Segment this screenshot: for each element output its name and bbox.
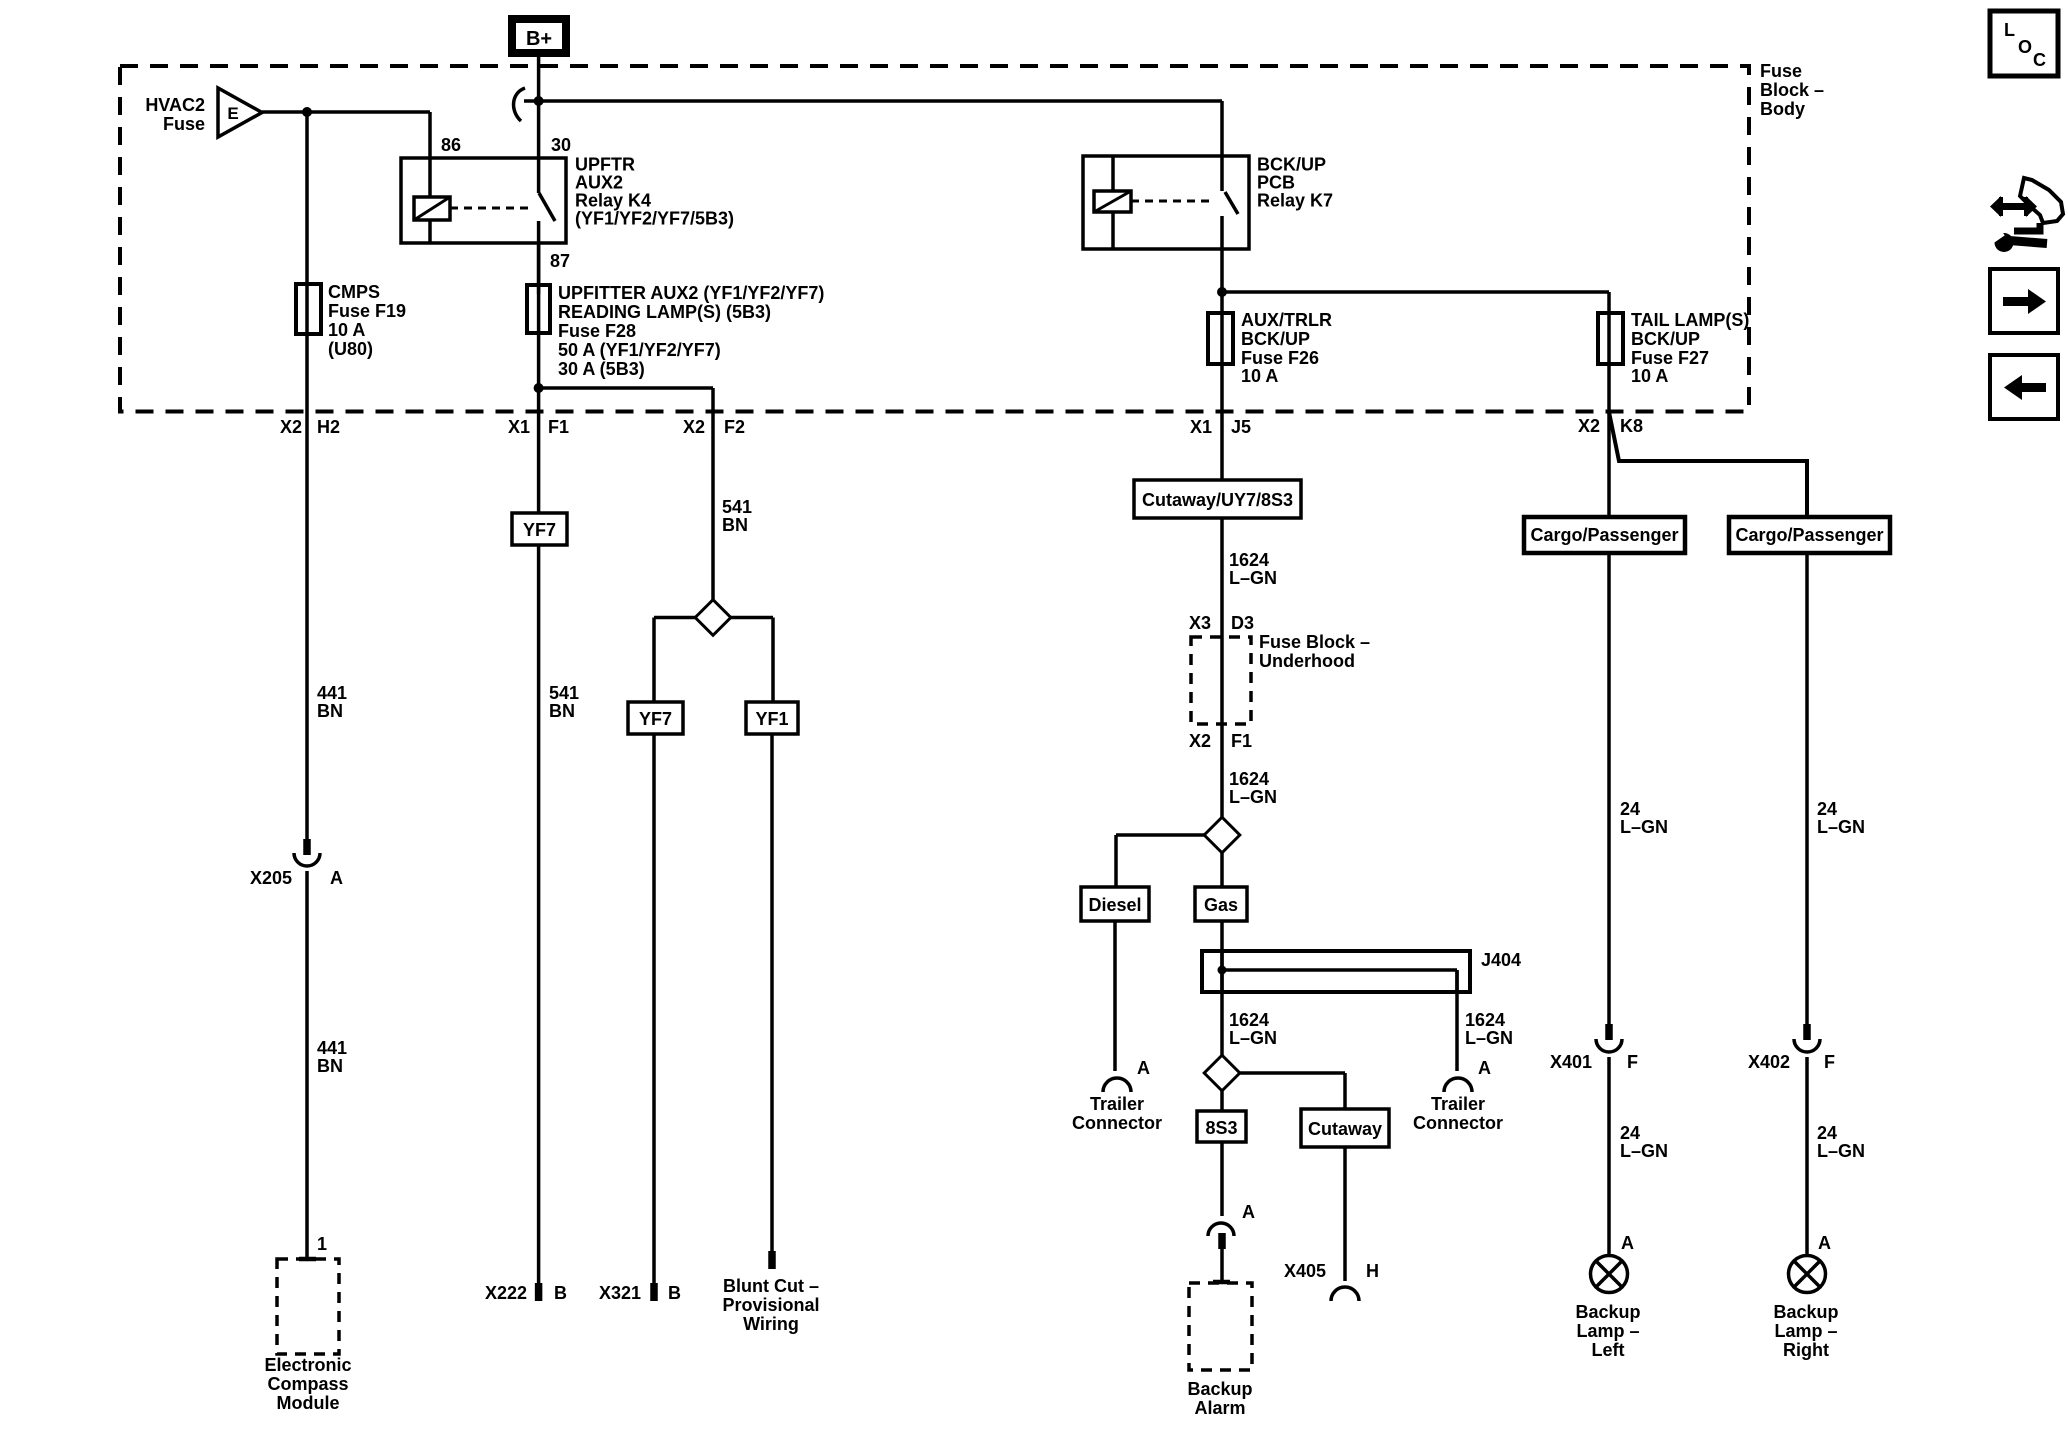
svg-text:Backup: Backup: [1773, 1302, 1838, 1322]
svg-text:L: L: [2004, 20, 2015, 40]
svg-text:AUX2: AUX2: [575, 173, 623, 193]
svg-text:READING LAMP(S) (5B3): READING LAMP(S) (5B3): [558, 302, 771, 322]
svg-text:Relay K7: Relay K7: [1257, 191, 1333, 211]
svg-text:Underhood: Underhood: [1259, 651, 1355, 671]
svg-text:CMPS: CMPS: [328, 282, 380, 302]
svg-text:D3: D3: [1231, 613, 1254, 633]
svg-text:A: A: [1621, 1233, 1634, 1253]
svg-text:X405: X405: [1284, 1261, 1326, 1281]
svg-text:BCK/UP: BCK/UP: [1241, 329, 1310, 349]
svg-text:O: O: [2018, 37, 2032, 57]
svg-text:Trailer: Trailer: [1431, 1094, 1485, 1114]
svg-text:L–GN: L–GN: [1229, 787, 1277, 807]
svg-text:1624: 1624: [1229, 550, 1269, 570]
svg-text:B: B: [668, 1283, 681, 1303]
svg-text:L–GN: L–GN: [1229, 568, 1277, 588]
svg-text:Backup: Backup: [1187, 1379, 1252, 1399]
svg-text:BN: BN: [722, 515, 748, 535]
svg-text:BCK/UP: BCK/UP: [1257, 155, 1326, 175]
svg-text:Compass: Compass: [267, 1374, 348, 1394]
svg-text:24: 24: [1620, 799, 1640, 819]
svg-text:AUX/TRLR: AUX/TRLR: [1241, 310, 1332, 330]
svg-text:X1: X1: [508, 417, 530, 437]
svg-text:YF7: YF7: [523, 520, 556, 540]
svg-text:Gas: Gas: [1204, 895, 1238, 915]
svg-text:PCB: PCB: [1257, 173, 1295, 193]
svg-text:K8: K8: [1620, 416, 1643, 436]
svg-text:Fuse Block –: Fuse Block –: [1259, 632, 1370, 652]
svg-text:Fuse F26: Fuse F26: [1241, 348, 1319, 368]
svg-text:86: 86: [441, 135, 461, 155]
svg-text:8S3: 8S3: [1205, 1118, 1237, 1138]
svg-text:L–GN: L–GN: [1817, 817, 1865, 837]
svg-text:L–GN: L–GN: [1620, 1141, 1668, 1161]
svg-text:87: 87: [550, 251, 570, 271]
svg-text:Body: Body: [1760, 99, 1805, 119]
svg-text:BN: BN: [317, 701, 343, 721]
svg-text:H: H: [1366, 1261, 1379, 1281]
svg-text:Lamp –: Lamp –: [1774, 1321, 1837, 1341]
svg-text:BCK/UP: BCK/UP: [1631, 329, 1700, 349]
svg-text:Provisional: Provisional: [722, 1295, 819, 1315]
svg-text:Cargo/Passenger: Cargo/Passenger: [1735, 525, 1883, 545]
svg-text:Fuse F28: Fuse F28: [558, 321, 636, 341]
svg-text:X401: X401: [1550, 1052, 1592, 1072]
svg-text:L–GN: L–GN: [1817, 1141, 1865, 1161]
svg-text:J5: J5: [1231, 417, 1251, 437]
svg-text:24: 24: [1817, 1123, 1837, 1143]
svg-text:441: 441: [317, 1038, 347, 1058]
svg-text:YF7: YF7: [639, 709, 672, 729]
svg-text:Module: Module: [277, 1393, 340, 1413]
svg-text:1624: 1624: [1465, 1010, 1505, 1030]
svg-text:X2: X2: [1189, 731, 1211, 751]
svg-text:X2: X2: [683, 417, 705, 437]
svg-text:F1: F1: [548, 417, 569, 437]
svg-text:Blunt Cut –: Blunt Cut –: [723, 1276, 819, 1296]
svg-text:Connector: Connector: [1413, 1113, 1503, 1133]
svg-text:Cutaway: Cutaway: [1308, 1119, 1382, 1139]
svg-text:Alarm: Alarm: [1194, 1398, 1245, 1418]
svg-text:A: A: [1137, 1058, 1150, 1078]
svg-text:Block –: Block –: [1760, 80, 1824, 100]
svg-text:Fuse F19: Fuse F19: [328, 301, 406, 321]
svg-text:Trailer: Trailer: [1090, 1094, 1144, 1114]
svg-text:1624: 1624: [1229, 1010, 1269, 1030]
svg-text:YF1: YF1: [755, 709, 788, 729]
svg-text:X2: X2: [1578, 416, 1600, 436]
svg-text:F2: F2: [724, 417, 745, 437]
svg-text:Electronic: Electronic: [264, 1355, 351, 1375]
svg-text:Diesel: Diesel: [1088, 895, 1141, 915]
svg-text:Fuse: Fuse: [1760, 61, 1802, 81]
svg-text:1624: 1624: [1229, 769, 1269, 789]
svg-text:Fuse F27: Fuse F27: [1631, 348, 1709, 368]
svg-text:24: 24: [1620, 1123, 1640, 1143]
svg-text:X205: X205: [250, 868, 292, 888]
svg-text:10 A: 10 A: [1241, 366, 1278, 386]
svg-text:A: A: [1478, 1058, 1491, 1078]
svg-text:X222: X222: [485, 1283, 527, 1303]
svg-text:Right: Right: [1783, 1340, 1829, 1360]
svg-text:J404: J404: [1481, 950, 1521, 970]
svg-text:Cargo/Passenger: Cargo/Passenger: [1530, 525, 1678, 545]
svg-text:X402: X402: [1748, 1052, 1790, 1072]
svg-text:Backup: Backup: [1575, 1302, 1640, 1322]
svg-text:(YF1/YF2/YF7/5B3): (YF1/YF2/YF7/5B3): [575, 209, 734, 229]
svg-text:541: 541: [722, 497, 752, 517]
svg-text:HVAC2: HVAC2: [145, 95, 205, 115]
svg-text:F: F: [1824, 1052, 1835, 1072]
svg-text:UPFITTER AUX2 (YF1/YF2/YF7): UPFITTER AUX2 (YF1/YF2/YF7): [558, 283, 824, 303]
svg-text:Wiring: Wiring: [743, 1314, 799, 1334]
svg-text:UPFTR: UPFTR: [575, 155, 635, 175]
svg-text:L–GN: L–GN: [1620, 817, 1668, 837]
svg-text:1: 1: [317, 1234, 327, 1254]
svg-text:TAIL LAMP(S): TAIL LAMP(S): [1631, 310, 1749, 330]
svg-text:30 A (5B3): 30 A (5B3): [558, 359, 645, 379]
svg-text:BN: BN: [549, 701, 575, 721]
svg-text:F: F: [1627, 1052, 1638, 1072]
svg-text:A: A: [330, 868, 343, 888]
svg-text:B+: B+: [526, 28, 552, 50]
svg-text:B: B: [554, 1283, 567, 1303]
svg-text:30: 30: [551, 135, 571, 155]
svg-text:E: E: [227, 104, 238, 123]
svg-text:A: A: [1818, 1233, 1831, 1253]
svg-text:10 A: 10 A: [1631, 366, 1668, 386]
svg-text:Connector: Connector: [1072, 1113, 1162, 1133]
svg-text:441: 441: [317, 683, 347, 703]
svg-text:Fuse: Fuse: [163, 114, 205, 134]
svg-text:10 A: 10 A: [328, 320, 365, 340]
svg-text:X321: X321: [599, 1283, 641, 1303]
svg-text:F1: F1: [1231, 731, 1252, 751]
svg-text:A: A: [1242, 1202, 1255, 1222]
svg-text:L–GN: L–GN: [1465, 1028, 1513, 1048]
svg-text:X3: X3: [1189, 613, 1211, 633]
svg-text:H2: H2: [317, 417, 340, 437]
svg-text:X1: X1: [1190, 417, 1212, 437]
svg-text:C: C: [2033, 50, 2046, 70]
svg-text:Relay K4: Relay K4: [575, 191, 651, 211]
svg-text:(U80): (U80): [328, 339, 373, 359]
svg-text:Cutaway/UY7/8S3: Cutaway/UY7/8S3: [1142, 490, 1293, 510]
svg-text:L–GN: L–GN: [1229, 1028, 1277, 1048]
svg-text:BN: BN: [317, 1056, 343, 1076]
svg-text:Left: Left: [1592, 1340, 1625, 1360]
svg-text:24: 24: [1817, 799, 1837, 819]
svg-text:50 A (YF1/YF2/YF7): 50 A (YF1/YF2/YF7): [558, 340, 721, 360]
svg-text:X2: X2: [280, 417, 302, 437]
svg-text:541: 541: [549, 683, 579, 703]
svg-text:Lamp –: Lamp –: [1576, 1321, 1639, 1341]
